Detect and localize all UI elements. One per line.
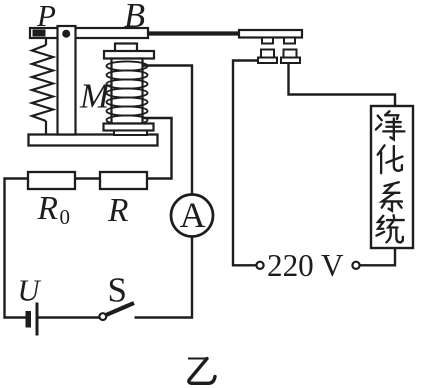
svg-text:M: M	[79, 77, 111, 116]
support post	[58, 26, 76, 135]
resistor R	[100, 172, 147, 189]
resistor R0	[28, 172, 75, 189]
character tong (统)	[376, 215, 403, 242]
svg-text:U: U	[18, 274, 42, 308]
wire right contact to box top	[289, 63, 396, 106]
svg-text:P: P	[36, 0, 56, 33]
coil turn 1	[107, 61, 148, 70]
lower fixed contact right stem	[284, 50, 297, 58]
battery U long plate	[36, 303, 39, 336]
solenoid core	[112, 59, 143, 124]
wire ammeter to switch	[135, 237, 193, 318]
lower fixed contact right base	[281, 58, 300, 64]
character hua (化)	[378, 145, 403, 173]
coil turn 2	[107, 70, 148, 79]
solenoid top flange	[104, 51, 154, 59]
armature bar B	[30, 28, 148, 38]
spring top lead	[45, 38, 47, 45]
wire left vertical (battery to R0 loop)	[5, 179, 29, 318]
battery U short plate	[26, 311, 32, 328]
svg-text:0: 0	[60, 205, 71, 229]
ammeter A	[171, 195, 213, 237]
spring bottom lead	[45, 121, 47, 135]
lower fixed contact left stem	[261, 50, 274, 58]
svg-text:A: A	[180, 195, 206, 235]
coil turn 5	[107, 97, 148, 106]
upper moving contact left	[262, 38, 273, 44]
terminal right (220V)	[352, 262, 359, 269]
armature contact block (solid)	[33, 30, 46, 37]
lower fixed contact left base	[258, 58, 277, 64]
spring	[32, 45, 53, 121]
svg-text:B: B	[124, 0, 145, 35]
svg-text:S: S	[108, 270, 127, 309]
label yi (乙)	[188, 359, 215, 384]
svg-text:R: R	[37, 190, 58, 227]
switch S blade	[106, 303, 134, 315]
wire R right to coil lower terminal	[142, 118, 172, 179]
solenoid bottom flange	[104, 124, 154, 131]
solenoid core bottom stub	[114, 131, 147, 136]
wire armature extension (thick)	[147, 31, 241, 35]
terminal left (220V)	[256, 262, 263, 269]
contact plate on armature	[239, 30, 302, 38]
upper moving contact right	[284, 38, 295, 44]
wire right terminal to box bottom	[360, 248, 395, 265]
coil turn 4	[107, 88, 148, 97]
relay base	[29, 135, 158, 146]
coil turn 3	[107, 79, 148, 88]
coil turn 6	[107, 106, 148, 115]
wire coil upper terminal to ammeter	[142, 66, 192, 196]
svg-text:R: R	[107, 192, 128, 229]
wire R0 to R	[75, 177, 100, 179]
character jing (净)	[376, 111, 405, 139]
svg-text:220 V: 220 V	[267, 247, 344, 283]
solenoid core top stub	[115, 44, 137, 52]
switch S hinge	[99, 313, 106, 320]
wire left contact to 220V left terminal	[233, 61, 258, 266]
character xi (系)	[382, 182, 402, 211]
purification system box	[371, 106, 413, 248]
wire switch hinge to battery	[38, 316, 100, 318]
coil turn 7	[107, 115, 148, 124]
pivot	[62, 30, 70, 38]
